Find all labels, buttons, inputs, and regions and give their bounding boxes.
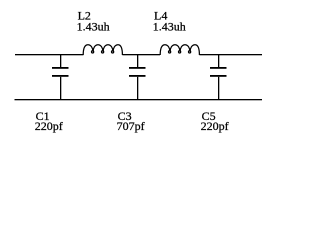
svg-text:707pf: 707pf xyxy=(117,119,145,133)
wire: top rail middle segment (L2 to L4, C3 tap) xyxy=(122,54,160,55)
svg-text:1.43uh: 1.43uh xyxy=(77,19,110,33)
inductor L4 (coil, 4 humps) xyxy=(160,45,199,55)
label C3 value 707pf xyxy=(117,119,145,133)
capacitor C3 top plate xyxy=(129,67,146,69)
capacitor C5 top plate xyxy=(210,67,227,69)
capacitor C1 bottom plate xyxy=(52,75,69,77)
capacitor C5 bottom plate xyxy=(210,75,227,77)
label L2 reference designator xyxy=(78,9,91,23)
label C1 reference designator xyxy=(36,109,50,123)
label C5 reference designator xyxy=(202,109,216,123)
wire: C3 top lead xyxy=(137,55,138,67)
inductor L2 (coil, 4 humps) xyxy=(83,45,122,55)
wire: top rail right segment (L4 to output) xyxy=(199,54,262,55)
wire: C1 bottom lead xyxy=(60,77,61,99)
svg-text:1.43uh: 1.43uh xyxy=(153,19,186,33)
capacitor C3 bottom plate xyxy=(129,75,146,77)
capacitor C1 top plate xyxy=(52,67,69,69)
label C3 reference designator xyxy=(118,109,132,123)
label L2 value 1.43uh xyxy=(77,19,110,33)
capacitor C5 xyxy=(210,55,227,99)
wire: bottom ground rail xyxy=(15,99,263,100)
label C5 value 220pf xyxy=(201,119,229,133)
svg-text:220pf: 220pf xyxy=(35,119,63,133)
label L4 value 1.43uh xyxy=(153,19,186,33)
capacitor C3 xyxy=(129,55,146,99)
wire: top rail left segment (input to L2) xyxy=(15,54,83,55)
label C1 value 220pf xyxy=(35,119,63,133)
label L4 reference designator xyxy=(154,9,167,23)
wire: C1 top lead xyxy=(60,55,61,67)
wire: C5 bottom lead xyxy=(218,77,219,99)
wire: C5 top lead xyxy=(218,55,219,67)
wire: C3 bottom lead xyxy=(137,77,138,99)
capacitor C1 xyxy=(52,55,69,99)
svg-text:220pf: 220pf xyxy=(201,119,229,133)
